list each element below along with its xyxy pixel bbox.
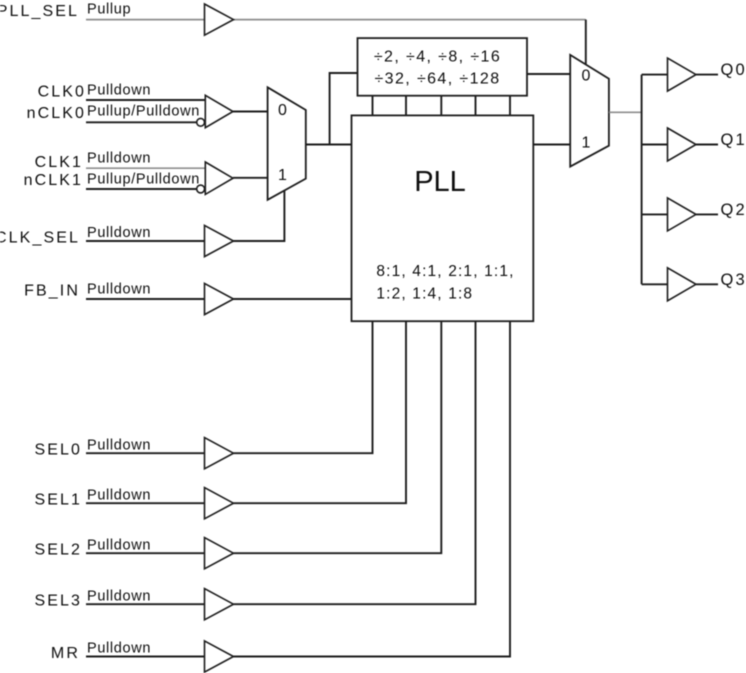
wire CLK0 bbox=[86, 99, 205, 101]
wire divider output to output mux input 0 bbox=[527, 73, 570, 75]
svg-text:SEL0: SEL0 bbox=[34, 442, 82, 459]
wire Q2 output bbox=[696, 213, 718, 215]
wire diff buffer 1 output to mux input 1 bbox=[233, 177, 268, 179]
svg-text:Pulldown: Pulldown bbox=[87, 588, 151, 604]
wire output mux to bus (gray) bbox=[609, 111, 642, 113]
buffer Q2 bbox=[668, 198, 697, 231]
wire SEL3 output to PLL bbox=[234, 321, 476, 604]
wire nCLK1 bbox=[86, 188, 197, 190]
svg-text:1: 1 bbox=[582, 135, 591, 152]
wire FB_IN bbox=[86, 298, 205, 300]
wire junction up to divider input bbox=[330, 73, 358, 145]
wire branch Q0 bbox=[642, 74, 668, 76]
mux input clock select bbox=[268, 87, 306, 200]
svg-text:FB_IN: FB_IN bbox=[24, 283, 80, 300]
buffer SEL1 bbox=[205, 488, 234, 519]
svg-text:CLK_SEL: CLK_SEL bbox=[0, 229, 80, 246]
wire SEL0 bbox=[86, 452, 205, 454]
wire SEL3 bbox=[86, 603, 205, 605]
wire branch Q2 bbox=[642, 213, 668, 215]
wire divider tap 3 bbox=[440, 96, 442, 116]
svg-text:Pulldown: Pulldown bbox=[87, 225, 151, 241]
svg-text:÷2, ÷4, ÷8, ÷16: ÷2, ÷4, ÷8, ÷16 bbox=[374, 48, 501, 65]
buffer CLK1/nCLK1 differential bbox=[205, 162, 233, 194]
wire Q3 output bbox=[696, 283, 718, 285]
svg-text:Pulldown: Pulldown bbox=[87, 151, 151, 167]
svg-text:nCLK1: nCLK1 bbox=[24, 172, 83, 189]
buffer Q1 bbox=[668, 128, 697, 161]
wire CLK1 (gray) bbox=[86, 167, 205, 169]
buffer MR bbox=[205, 641, 234, 672]
wire output bus vertical bbox=[641, 75, 643, 285]
inversion bubble nCLK0 bbox=[197, 118, 205, 126]
svg-text:1: 1 bbox=[278, 167, 287, 184]
svg-text:÷32, ÷64, ÷128: ÷32, ÷64, ÷128 bbox=[374, 71, 500, 88]
wire PLL_SEL select net (gray, buffer output to output mux) bbox=[234, 19, 586, 21]
buffer CLK_SEL bbox=[205, 225, 234, 256]
wire branch Q1 bbox=[642, 144, 668, 146]
buffer PLL_SEL bbox=[205, 4, 234, 35]
svg-text:CLK1: CLK1 bbox=[35, 154, 83, 171]
svg-text:nCLK0: nCLK0 bbox=[27, 105, 86, 122]
svg-text:Pulldown: Pulldown bbox=[87, 487, 151, 503]
svg-text:Pulldown: Pulldown bbox=[87, 641, 151, 657]
divider box bbox=[358, 38, 528, 96]
wire PLL output to output mux input 1 bbox=[533, 144, 570, 146]
svg-text:0: 0 bbox=[278, 102, 287, 119]
svg-text:Pulldown: Pulldown bbox=[87, 83, 151, 99]
wire branch Q3 bbox=[642, 283, 668, 285]
wire MR output to PLL bbox=[234, 321, 511, 656]
buffer CLK0/nCLK0 differential bbox=[205, 95, 233, 127]
svg-text:Pullup: Pullup bbox=[87, 2, 131, 18]
svg-text:CLK0: CLK0 bbox=[38, 84, 86, 101]
buffer FB_IN bbox=[205, 283, 234, 314]
wire SEL2 bbox=[86, 552, 205, 554]
svg-text:Pulldown: Pulldown bbox=[87, 437, 151, 453]
wire divider tap 5 bbox=[509, 96, 511, 116]
svg-text:PLL_SEL: PLL_SEL bbox=[0, 3, 79, 20]
wire SEL0 output to PLL bbox=[234, 321, 373, 453]
buffer SEL2 bbox=[205, 538, 234, 569]
buffer SEL3 bbox=[205, 589, 234, 620]
svg-text:Q0: Q0 bbox=[721, 61, 746, 79]
svg-text:MR: MR bbox=[51, 645, 80, 662]
svg-text:Pullup/Pulldown: Pullup/Pulldown bbox=[87, 103, 200, 119]
svg-text:SEL3: SEL3 bbox=[34, 593, 82, 610]
svg-text:Q1: Q1 bbox=[721, 131, 746, 149]
mux output bypass select bbox=[570, 55, 609, 167]
wire PLL_SEL (gray, input to buffer) bbox=[86, 19, 205, 21]
svg-text:1:2, 1:4, 1:8: 1:2, 1:4, 1:8 bbox=[376, 286, 473, 303]
svg-text:Pulldown: Pulldown bbox=[87, 537, 151, 553]
wire diff buffer 0 output to mux input 0 bbox=[233, 111, 268, 113]
svg-text:Pulldown: Pulldown bbox=[87, 282, 151, 298]
wire FB_IN buffer output to PLL bbox=[234, 298, 352, 300]
svg-text:0: 0 bbox=[582, 68, 591, 85]
wire Q0 output bbox=[696, 74, 718, 76]
wire CLK_SEL bbox=[86, 240, 205, 242]
svg-text:Pullup/Pulldown: Pullup/Pulldown bbox=[87, 172, 200, 188]
PLL block bbox=[352, 115, 534, 321]
wire input mux output to PLL input bbox=[306, 144, 352, 146]
svg-text:SEL2: SEL2 bbox=[34, 542, 82, 559]
buffer Q3 bbox=[668, 268, 697, 301]
wire divider tap 1 bbox=[372, 96, 374, 116]
svg-text:PLL: PLL bbox=[414, 166, 466, 198]
wire select drop into output mux bbox=[585, 20, 587, 65]
wire SEL1 bbox=[86, 502, 205, 504]
wire SEL1 output to PLL bbox=[234, 321, 407, 503]
buffer Q0 bbox=[668, 58, 697, 91]
wire Q1 output bbox=[696, 144, 718, 146]
svg-text:8:1, 4:1, 2:1, 1:1,: 8:1, 4:1, 2:1, 1:1, bbox=[376, 263, 514, 280]
buffer SEL0 bbox=[205, 438, 234, 469]
svg-text:SEL1: SEL1 bbox=[34, 492, 82, 509]
svg-text:Q2: Q2 bbox=[721, 201, 746, 219]
inversion bubble nCLK1 bbox=[197, 185, 205, 193]
wire CLK_SEL buffer output to mux select bbox=[234, 190, 285, 241]
wire MR bbox=[86, 656, 205, 658]
wire nCLK0 bbox=[86, 121, 197, 123]
wire SEL2 output to PLL bbox=[234, 321, 442, 553]
svg-text:Q3: Q3 bbox=[721, 271, 746, 289]
wire divider tap 4 bbox=[475, 96, 477, 116]
wire divider tap 2 bbox=[405, 96, 407, 116]
